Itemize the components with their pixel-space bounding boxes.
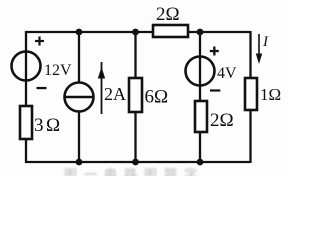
svg-text:6Ω: 6Ω	[145, 87, 169, 108]
svg-text:12V: 12V	[44, 62, 72, 79]
svg-text:2Ω: 2Ω	[156, 4, 180, 25]
svg-text:1Ω: 1Ω	[260, 85, 281, 104]
svg-text:4V: 4V	[217, 65, 237, 82]
svg-text:I: I	[262, 34, 269, 50]
svg-text:2A: 2A	[104, 84, 126, 104]
svg-text:3Ω: 3Ω	[34, 115, 63, 136]
svg-text:2Ω: 2Ω	[210, 110, 234, 131]
svg-text:图一电路图题字: 图一电路图题字	[64, 167, 204, 176]
